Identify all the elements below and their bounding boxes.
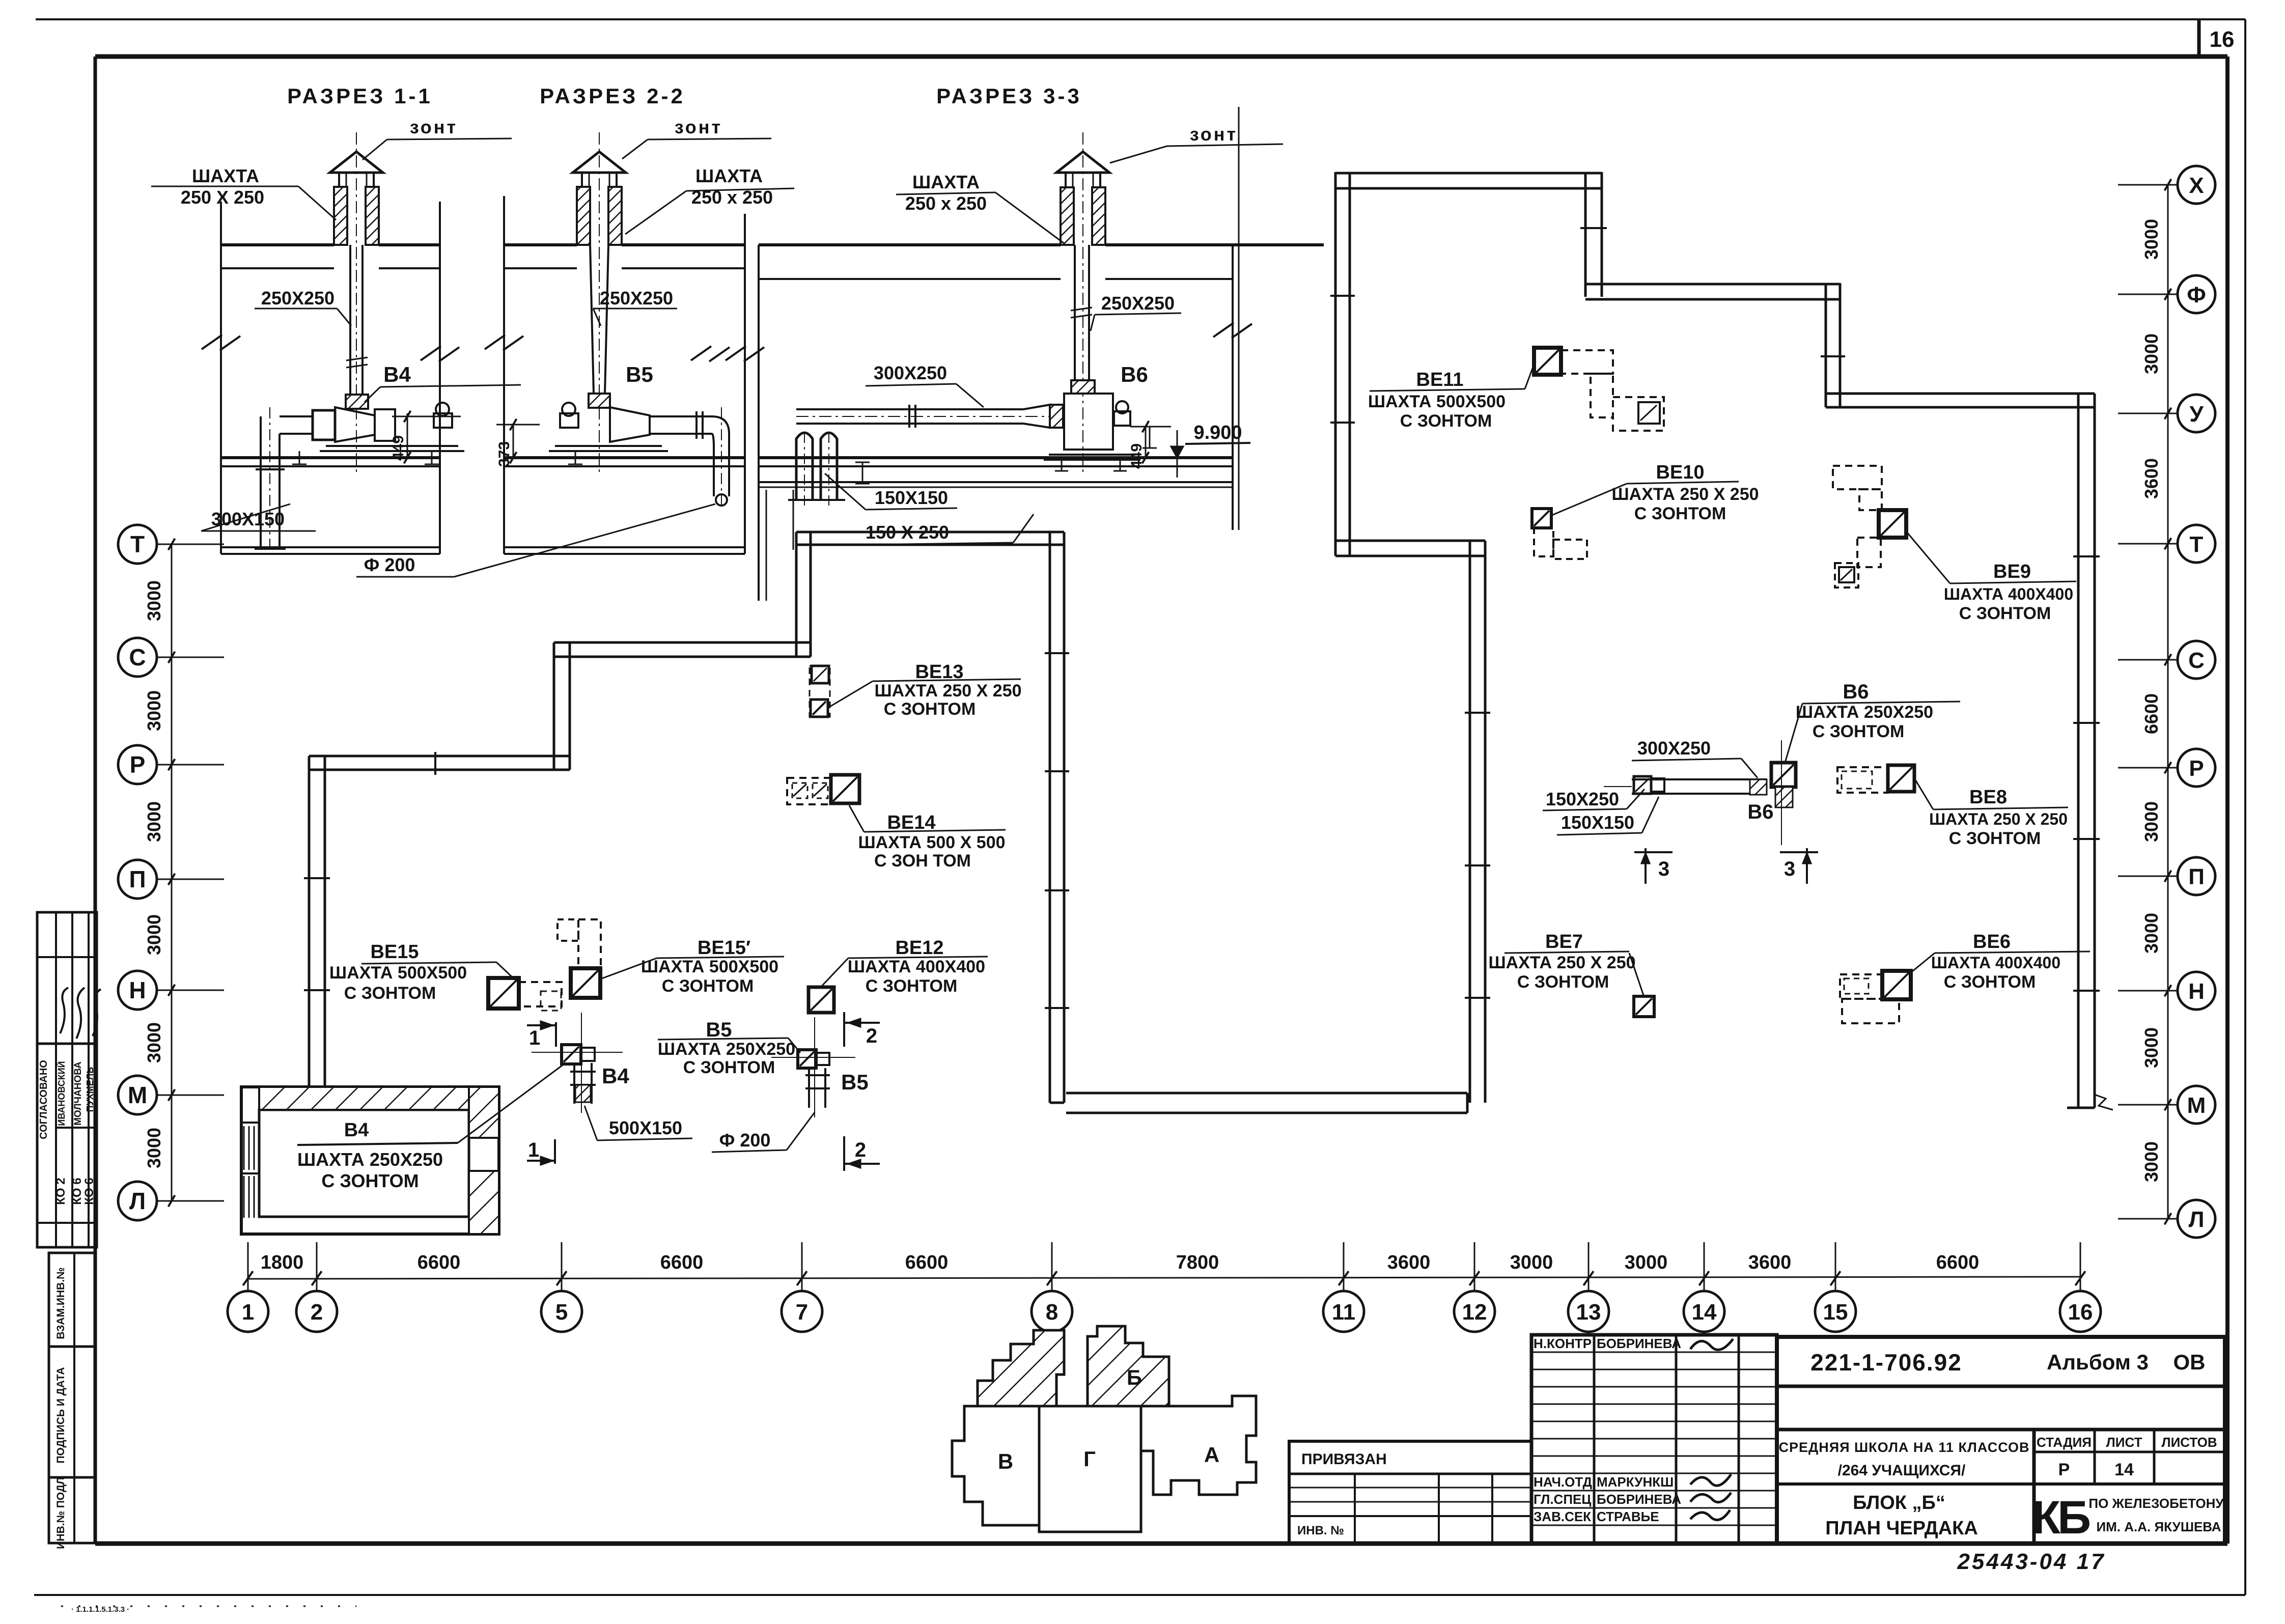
label В5 ШАХТА 250X250 С ЗОНТОМ bbox=[658, 1019, 800, 1077]
svg-text:12: 12 bbox=[1462, 1300, 1487, 1325]
label Ф200 (2-2) bbox=[356, 504, 715, 577]
right room: north step 1 bbox=[1585, 172, 1602, 297]
svg-text:5: 5 bbox=[555, 1300, 568, 1325]
axis circle Х (right) bbox=[2118, 166, 2215, 204]
vent umbrella (зонт) bbox=[1056, 152, 1109, 187]
section cut mark 1 (upper) bbox=[527, 1021, 556, 1049]
svg-text:МОЛЧАНОВА: МОЛЧАНОВА bbox=[73, 1061, 83, 1126]
svg-text:150X150: 150X150 bbox=[1561, 812, 1634, 833]
label 150X250 (plan) bbox=[1543, 789, 1645, 810]
marker ВЕ9 shaft bbox=[1833, 466, 1906, 587]
section 1-1 context boundary walls with break marks bbox=[202, 202, 459, 554]
fan unit (2-2) bbox=[549, 403, 668, 464]
svg-text:ИВАНОВСКИЙ: ИВАНОВСКИЙ bbox=[56, 1061, 67, 1126]
key plan block Б (hatched) part 2 bbox=[1088, 1326, 1169, 1406]
svg-text:ВЕ6: ВЕ6 bbox=[1973, 931, 2011, 953]
label ВЕ15prime bbox=[602, 937, 784, 996]
label 500X150 bbox=[584, 1106, 692, 1140]
left axis spacing labels 3000 bbox=[144, 580, 164, 1168]
svg-text:3000: 3000 bbox=[144, 690, 164, 731]
svg-text:СРЕДНЯЯ ШКОЛА НА 11 КЛАССОВ: СРЕДНЯЯ ШКОЛА НА 11 КЛАССОВ bbox=[1778, 1440, 2029, 1455]
svg-text:ШАХТА 400X400: ШАХТА 400X400 bbox=[1944, 585, 2073, 603]
svg-text:ШАХТА 500X500: ШАХТА 500X500 bbox=[641, 957, 778, 976]
key plan block Г bbox=[1039, 1406, 1141, 1532]
svg-text:ПО ЖЕЛЕЗОБЕТОНУ: ПО ЖЕЛЕЗОБЕТОНУ bbox=[2088, 1496, 2224, 1511]
svg-text:/264 УЧАЩИХСЯ/: /264 УЧАЩИХСЯ/ bbox=[1838, 1462, 1966, 1479]
svg-text:Т: Т bbox=[2190, 532, 2204, 557]
section 2-2 roof slab lines bbox=[504, 245, 745, 268]
svg-text:· 1.1.1.1.5.1.3.3 ·: · 1.1.1.1.5.1.3.3 · bbox=[71, 1605, 129, 1614]
svg-text:РАЗРЕЗ 3-3: РАЗРЕЗ 3-3 bbox=[936, 84, 1082, 108]
svg-text:3000: 3000 bbox=[144, 801, 164, 842]
svg-text:1: 1 bbox=[242, 1300, 254, 1325]
long horizontal duct 300x250 (3-3) bbox=[796, 405, 1056, 428]
svg-text:У: У bbox=[2189, 402, 2204, 427]
svg-text:ВЕ9: ВЕ9 bbox=[1993, 561, 2031, 582]
duct 250x250 drop (3-3) bbox=[1071, 132, 1092, 476]
svg-text:25443-04 17: 25443-04 17 bbox=[1957, 1549, 2105, 1574]
svg-text:БОБРИНЕВА: БОБРИНЕВА bbox=[1597, 1336, 1681, 1351]
marker ВЕ12 shaft bbox=[809, 987, 834, 1013]
section title РАЗРЕЗ 2-2 bbox=[540, 84, 685, 108]
svg-text:В5: В5 bbox=[626, 362, 653, 386]
svg-text:16: 16 bbox=[2210, 27, 2235, 52]
dim 449 (1-1) bbox=[390, 411, 461, 464]
svg-text:3000: 3000 bbox=[2141, 801, 2162, 842]
marker В5 roof fan bbox=[771, 1017, 855, 1117]
key plan block Б (hatched) part 1 bbox=[978, 1330, 1064, 1406]
privyazan box bbox=[1289, 1441, 1531, 1544]
label ВЕ13 bbox=[830, 661, 1022, 719]
svg-text:Ф 200: Ф 200 bbox=[364, 554, 415, 575]
svg-text:7: 7 bbox=[796, 1300, 808, 1325]
section cut mark 2 (upper) bbox=[844, 1012, 880, 1047]
extension lines below section 3-3 bbox=[759, 245, 793, 601]
svg-text:7800: 7800 bbox=[1176, 1252, 1219, 1273]
label ШАХТА 250 x 250 (2-2) bbox=[625, 165, 794, 234]
svg-text:СОГЛАСОВАНО: СОГЛАСОВАНО bbox=[38, 1060, 49, 1139]
svg-text:С ЗОНТОМ: С ЗОНТОМ bbox=[662, 976, 754, 996]
label 250X250 (2-2) bbox=[593, 288, 677, 326]
label ВЕ12 bbox=[821, 937, 988, 996]
svg-text:ШАХТА 500 X 500: ШАХТА 500 X 500 bbox=[858, 833, 1005, 852]
svg-text:ШАХТА 250 X 250: ШАХТА 250 X 250 bbox=[1929, 810, 2068, 828]
svg-text:В6: В6 bbox=[1843, 681, 1869, 703]
svg-text:250 x 250: 250 x 250 bbox=[905, 193, 987, 214]
svg-text:ВЕ8: ВЕ8 bbox=[1969, 787, 2007, 808]
svg-text:РАЗРЕЗ 1-1: РАЗРЕЗ 1-1 bbox=[287, 84, 433, 108]
axis circle 2 (bottom) bbox=[296, 1242, 337, 1332]
svg-text:П: П bbox=[129, 866, 146, 892]
axis circle Н (right) bbox=[2118, 972, 2215, 1010]
svg-text:БОБРИНЕВА: БОБРИНЕВА bbox=[1597, 1492, 1681, 1507]
title text БЛОК Б / ПЛАН ЧЕРДАКА bbox=[1825, 1492, 1978, 1539]
svg-text:Альбом 3: Альбом 3 bbox=[2047, 1350, 2149, 1374]
marker В4 roof fan bbox=[532, 1013, 623, 1113]
bottom dimension line bbox=[248, 1277, 2080, 1279]
elbow duct right ф200 (2-2) bbox=[650, 407, 729, 509]
svg-text:9.900: 9.900 bbox=[1193, 422, 1242, 443]
marker ВЕ8 shaft bbox=[1837, 765, 1914, 793]
svg-text:КО 6: КО 6 bbox=[70, 1178, 84, 1205]
axis circle П (left) bbox=[118, 860, 224, 899]
svg-text:ШАХТА 500X500: ШАХТА 500X500 bbox=[1368, 392, 1506, 411]
shaft 250x250 hatched walls (2-2) bbox=[577, 187, 622, 245]
svg-text:МАРКУНКШ: МАРКУНКШ bbox=[1597, 1474, 1674, 1490]
axis circle Л (right) bbox=[2118, 1200, 2215, 1238]
svg-text:ПУХМЕЛЬ: ПУХМЕЛЬ bbox=[85, 1067, 95, 1112]
svg-text:1: 1 bbox=[529, 1027, 540, 1049]
svg-text:3600: 3600 bbox=[2141, 458, 2162, 499]
label В4 ШАХТА 250X250 С ЗОНТОМ (structure) bbox=[297, 1064, 564, 1191]
label ВЕ6 bbox=[1912, 931, 2090, 992]
svg-text:1800: 1800 bbox=[261, 1252, 304, 1273]
svg-text:221-1-706.92: 221-1-706.92 bbox=[1810, 1349, 1962, 1376]
axis circle М (right) bbox=[2118, 1086, 2215, 1124]
flex connector (1-1) bbox=[346, 395, 368, 409]
label 150X150 (3-3) bbox=[825, 473, 957, 510]
svg-text:ИНВ. №: ИНВ. № bbox=[1297, 1524, 1344, 1537]
В6 duct run on plan bbox=[1604, 740, 1796, 845]
svg-text:ШАХТА 400X400: ШАХТА 400X400 bbox=[1931, 954, 2060, 972]
dim 373 (2-2) bbox=[496, 419, 540, 467]
label ВЕ8 bbox=[1915, 780, 2068, 848]
label ШАХТА 250 x 250 (3-3) bbox=[896, 172, 1064, 243]
svg-text:ГЛ.СПЕЦ: ГЛ.СПЕЦ bbox=[1534, 1492, 1591, 1507]
elbow duct down-left 300x150 (1-1) bbox=[255, 407, 286, 552]
svg-text:зонт: зонт bbox=[410, 117, 458, 137]
left room: step wall horizontal bbox=[554, 642, 811, 657]
section cut mark 1 (lower) bbox=[527, 1139, 555, 1165]
tapered duct drop (2-2) bbox=[590, 132, 608, 473]
section cut mark 3 (right) bbox=[1780, 848, 1818, 884]
svg-text:В4: В4 bbox=[344, 1119, 369, 1141]
left margin stamp table (approvals) bbox=[37, 912, 101, 1247]
axis circle Н (left) bbox=[118, 971, 224, 1010]
svg-text:6600: 6600 bbox=[417, 1252, 461, 1273]
svg-text:300X150: 300X150 bbox=[211, 509, 285, 529]
svg-text:3600: 3600 bbox=[1748, 1252, 1792, 1273]
label зонт (1-1) bbox=[363, 117, 512, 160]
left room: north wall bbox=[796, 532, 1064, 545]
svg-text:3000: 3000 bbox=[144, 1022, 164, 1063]
svg-text:ИМ. А.А. ЯКУШЕВА: ИМ. А.А. ЯКУШЕВА bbox=[2096, 1519, 2221, 1534]
svg-text:В4: В4 bbox=[602, 1064, 629, 1088]
section title РАЗРЕЗ 1-1 bbox=[287, 84, 433, 108]
svg-text:3000: 3000 bbox=[2141, 913, 2162, 954]
svg-text:С ЗОНТОМ: С ЗОНТОМ bbox=[683, 1058, 775, 1077]
left room: step wall vertical 2 bbox=[796, 532, 811, 657]
svg-text:250 X 250: 250 X 250 bbox=[181, 187, 264, 208]
svg-text:ШАХТА 250X250: ШАХТА 250X250 bbox=[1796, 703, 1933, 722]
svg-text:2: 2 bbox=[311, 1300, 323, 1325]
svg-text:449: 449 bbox=[1128, 443, 1145, 469]
svg-text:СТАДИЯ: СТАДИЯ bbox=[2037, 1435, 2092, 1450]
svg-text:С ЗОНТОМ: С ЗОНТОМ bbox=[884, 699, 976, 719]
right room: north wall A bbox=[1335, 173, 1602, 188]
section 2-2 context boundary walls with break marks bbox=[485, 196, 764, 554]
key plan block В bbox=[952, 1406, 1039, 1525]
label 150X150 (plan) bbox=[1557, 797, 1659, 835]
svg-text:Р: Р bbox=[130, 751, 146, 778]
sheet number box 16 bbox=[2199, 19, 2234, 57]
left room: west wall bbox=[309, 756, 325, 1087]
svg-text:С ЗОНТОМ: С ЗОНТОМ bbox=[1813, 722, 1905, 741]
label В6 + ШАХТА 250X250 (plan) bbox=[1785, 681, 1960, 763]
marker ВЕ7 shaft bbox=[1634, 996, 1654, 1017]
svg-text:С ЗОНТОМ: С ЗОНТОМ bbox=[1634, 504, 1726, 523]
dim 449 (3-3) bbox=[1128, 421, 1171, 469]
svg-text:3: 3 bbox=[1784, 858, 1795, 880]
section cut mark 3 (left) bbox=[1634, 848, 1673, 884]
twin stand pipes 150x150 (3-3) bbox=[788, 433, 845, 507]
svg-text:ШАХТА: ШАХТА bbox=[912, 172, 980, 192]
right axis line bbox=[2167, 185, 2169, 1219]
svg-text:ЛИСТОВ: ЛИСТОВ bbox=[2161, 1435, 2217, 1450]
wall joint ticks (right room) bbox=[1330, 228, 2100, 998]
svg-text:ШАХТА 250 X 250: ШАХТА 250 X 250 bbox=[1488, 953, 1635, 972]
svg-text:6600: 6600 bbox=[1936, 1252, 1980, 1273]
label В5 (section) bbox=[626, 362, 653, 386]
wall joint ticks (left room) bbox=[304, 653, 1069, 1008]
svg-text:ВЕ12: ВЕ12 bbox=[895, 937, 943, 959]
fan unit (1-1) bbox=[280, 403, 464, 464]
svg-text:БЛОК „Б“: БЛОК „Б“ bbox=[1853, 1492, 1945, 1514]
svg-text:3000: 3000 bbox=[1625, 1252, 1668, 1273]
fan unit (3-3) bbox=[1044, 394, 1140, 471]
svg-text:В5: В5 bbox=[706, 1019, 732, 1041]
svg-text:ВЗАМ.ИНВ.№: ВЗАМ.ИНВ.№ bbox=[55, 1267, 67, 1339]
handwritten 25443-04 17 bbox=[1957, 1549, 2105, 1574]
svg-text:14: 14 bbox=[1692, 1300, 1717, 1325]
section 1-1 floor slab bbox=[221, 458, 440, 554]
svg-text:ВЕ11: ВЕ11 bbox=[1416, 369, 1464, 390]
svg-text:Н.КОНТР: Н.КОНТР bbox=[1534, 1336, 1592, 1351]
svg-text:В: В bbox=[998, 1449, 1013, 1473]
axis circle С (left) bbox=[118, 638, 224, 677]
section cut mark 2 (lower) bbox=[844, 1136, 880, 1171]
svg-text:373: 373 bbox=[496, 441, 513, 467]
key plan block А bbox=[1141, 1396, 1256, 1495]
axis circle Т (right) bbox=[2118, 525, 2215, 563]
svg-text:СТРАВЬЕ: СТРАВЬЕ bbox=[1597, 1509, 1659, 1524]
right room: west wall upper bbox=[1335, 172, 1350, 556]
axis circle Р (right) bbox=[2118, 749, 2215, 787]
svg-text:Н: Н bbox=[129, 977, 146, 1003]
right room: west wall lower bbox=[1470, 541, 1485, 1103]
svg-text:11: 11 bbox=[1332, 1300, 1356, 1325]
svg-text:В6: В6 bbox=[1747, 801, 1773, 823]
label В4 (section) bbox=[365, 362, 521, 402]
svg-text:3000: 3000 bbox=[2141, 219, 2162, 260]
label 250X250 (1-1) bbox=[255, 288, 351, 326]
right room: north wall C bbox=[1826, 394, 2095, 407]
vent umbrella (зонт) bbox=[573, 152, 626, 187]
label 150x250 (3-3) bbox=[860, 514, 1034, 545]
svg-text:Х: Х bbox=[2189, 173, 2204, 198]
title block signature table bbox=[1531, 1335, 1777, 1544]
svg-text:С: С bbox=[129, 644, 146, 670]
marker ВЕ6 shaft bbox=[1840, 971, 1911, 1023]
marker ВЕ13 shaft bbox=[810, 666, 830, 717]
label 250X250 (3-3) bbox=[1091, 293, 1181, 331]
marker ВЕ14 shaft bbox=[787, 775, 859, 804]
svg-text:С ЗОНТОМ: С ЗОНТОМ bbox=[1959, 604, 2051, 623]
svg-text:500X150: 500X150 bbox=[609, 1117, 682, 1138]
label ВЕ11 bbox=[1368, 361, 1535, 431]
axis circle Т (left) bbox=[118, 525, 224, 564]
axis circle П (right) bbox=[2118, 857, 2215, 895]
svg-text:ОВ: ОВ bbox=[2173, 1350, 2206, 1374]
flex connector (2-2) bbox=[589, 394, 610, 408]
svg-text:С ЗОНТОМ: С ЗОНТОМ bbox=[321, 1170, 419, 1191]
title text school name bbox=[1778, 1440, 2029, 1479]
svg-text:ЛИСТ: ЛИСТ bbox=[2106, 1435, 2142, 1450]
level mark 9.900 (3-3) bbox=[1167, 422, 1250, 478]
axis circle Л (left) bbox=[118, 1182, 224, 1220]
svg-text:ВЕ10: ВЕ10 bbox=[1656, 462, 1704, 483]
section 1-1 roof slab lines bbox=[221, 245, 440, 268]
svg-text:6600: 6600 bbox=[2141, 693, 2162, 734]
right room: north wall B bbox=[1585, 284, 1840, 299]
left room: south wall bbox=[1066, 1093, 1467, 1113]
section title РАЗРЕЗ 3-3 bbox=[936, 84, 1082, 108]
label ВЕ7 bbox=[1488, 931, 1643, 995]
title logo КБ bbox=[2032, 1492, 2224, 1544]
svg-text:М: М bbox=[2187, 1093, 2206, 1118]
svg-text:250X250: 250X250 bbox=[1101, 293, 1175, 314]
svg-text:Л: Л bbox=[2189, 1207, 2205, 1232]
shaft 250x250 hatched walls (1-1) bbox=[334, 187, 379, 245]
marker ВЕ11 shaft bbox=[1534, 348, 1664, 431]
svg-text:В4: В4 bbox=[383, 362, 411, 386]
svg-text:13: 13 bbox=[1576, 1300, 1601, 1325]
svg-text:зонт: зонт bbox=[1190, 124, 1238, 145]
left room: north-west wall bbox=[309, 756, 570, 770]
svg-text:3600: 3600 bbox=[1387, 1252, 1431, 1273]
axis circle У (right) bbox=[2118, 395, 2215, 432]
label ВЕ9 bbox=[1907, 532, 2076, 623]
marker ВЕ10 shaft bbox=[1532, 509, 1587, 559]
axis circle 7 (bottom) bbox=[782, 1242, 822, 1332]
label 300X150 (1-1) bbox=[201, 504, 316, 531]
svg-text:РАЗРЕЗ 2-2: РАЗРЕЗ 2-2 bbox=[540, 84, 685, 108]
svg-text:ИНВ.№ ПОДЛ: ИНВ.№ ПОДЛ bbox=[55, 1477, 67, 1549]
svg-text:Б: Б bbox=[1127, 1365, 1142, 1389]
label Ф200 bbox=[712, 1112, 815, 1152]
svg-text:С ЗОНТОМ: С ЗОНТОМ bbox=[1949, 829, 2041, 848]
svg-text:ШАХТА 400X400: ШАХТА 400X400 bbox=[848, 957, 985, 976]
axis circle М (left) bbox=[118, 1076, 224, 1114]
svg-text:В5: В5 bbox=[841, 1070, 869, 1094]
label ВЕ14 bbox=[849, 805, 1006, 871]
svg-text:С ЗОНТОМ: С ЗОНТОМ bbox=[1400, 411, 1492, 431]
svg-text:3000: 3000 bbox=[144, 1128, 164, 1168]
svg-text:6600: 6600 bbox=[905, 1252, 949, 1273]
svg-text:Т: Т bbox=[130, 531, 145, 557]
left room: east wall bbox=[1050, 532, 1064, 1103]
svg-text:3000: 3000 bbox=[144, 580, 164, 621]
svg-text:КБ: КБ bbox=[2032, 1492, 2089, 1544]
svg-text:250X250: 250X250 bbox=[600, 288, 673, 309]
axis circle 1 (bottom) bbox=[228, 1242, 268, 1332]
axis circle 5 (bottom) bbox=[541, 1242, 582, 1332]
svg-text:3000: 3000 bbox=[144, 914, 164, 955]
axis circle С (right) bbox=[2118, 641, 2215, 679]
flex connector (3-3) bbox=[1071, 380, 1095, 394]
svg-text:Н: Н bbox=[2188, 979, 2205, 1004]
svg-text:Ф 200: Ф 200 bbox=[719, 1130, 771, 1151]
left margin stamp table (inventory) bbox=[49, 1253, 95, 1549]
svg-text:НАЧ.ОТД: НАЧ.ОТД bbox=[1534, 1474, 1593, 1490]
svg-text:3000: 3000 bbox=[2141, 333, 2162, 374]
svg-text:зонт: зонт bbox=[675, 117, 722, 137]
svg-text:КО 2: КО 2 bbox=[54, 1178, 68, 1205]
axis circle 12 (bottom) bbox=[1454, 1242, 1495, 1332]
label 300X250 (plan) bbox=[1632, 738, 1758, 778]
stage/sheet header bbox=[2037, 1435, 2217, 1479]
duct 250x250 drop (1-1) bbox=[346, 132, 368, 473]
right room: east wall bbox=[2067, 394, 2113, 1110]
bottom margin dotted marks bbox=[61, 1605, 356, 1614]
svg-text:Л: Л bbox=[129, 1188, 146, 1214]
label ШАХТА 250 X 250 (1-1) bbox=[151, 165, 336, 220]
svg-text:300X250: 300X250 bbox=[874, 362, 947, 383]
svg-text:Р: Р bbox=[2189, 756, 2204, 781]
marker ВЕ15prime shaft bbox=[558, 919, 601, 998]
pipe supports (3-3) bbox=[855, 427, 1157, 484]
svg-text:ШАХТА 250X250: ШАХТА 250X250 bbox=[297, 1149, 443, 1170]
svg-text:ШАХТА 250 X 250: ШАХТА 250 X 250 bbox=[1611, 485, 1759, 504]
svg-text:ЗАВ.СЕК: ЗАВ.СЕК bbox=[1534, 1509, 1591, 1524]
section 2-2 floor slab bbox=[504, 458, 745, 554]
svg-text:3000: 3000 bbox=[2141, 1141, 2162, 1182]
svg-text:ШАХТА: ШАХТА bbox=[695, 165, 763, 186]
section 3-3 roof slab lines bbox=[759, 245, 1324, 279]
axis circle 11 (bottom) bbox=[1323, 1242, 1364, 1332]
svg-text:С ЗОНТОМ: С ЗОНТОМ bbox=[344, 984, 436, 1003]
shaft 250x250 hatched walls (3-3) bbox=[1061, 187, 1105, 245]
label ВЕ15 bbox=[329, 941, 515, 1003]
svg-text:С ЗОНТОМ: С ЗОНТОМ bbox=[1944, 972, 2036, 992]
axis circle Ф (right) bbox=[2118, 275, 2215, 313]
svg-text:ВЕ7: ВЕ7 bbox=[1545, 931, 1583, 953]
label 300X250 (3-3) bbox=[866, 362, 984, 407]
crosshatch joint (3-3) bbox=[1050, 405, 1063, 428]
title text Альбом 3 ОВ bbox=[2047, 1350, 2205, 1374]
svg-text:ШАХТА: ШАХТА bbox=[192, 165, 259, 186]
left axis line bbox=[171, 544, 173, 1201]
svg-text:С ЗОНТОМ: С ЗОНТОМ bbox=[866, 976, 958, 996]
svg-text:150X150: 150X150 bbox=[875, 487, 948, 508]
title block main box bbox=[1777, 1337, 2225, 1544]
svg-text:ПОДПИСЬ И ДАТА: ПОДПИСЬ И ДАТА bbox=[55, 1367, 67, 1463]
svg-text:С ЗОН ТОМ: С ЗОН ТОМ bbox=[874, 851, 971, 871]
svg-text:С ЗОНТОМ: С ЗОНТОМ bbox=[1517, 972, 1609, 992]
svg-text:Ф: Ф bbox=[2187, 283, 2206, 307]
svg-text:ВЕ15: ВЕ15 bbox=[370, 941, 419, 963]
axis circle 8 (bottom) bbox=[1032, 1242, 1072, 1332]
svg-text:ШАХТА 250X250: ШАХТА 250X250 bbox=[658, 1040, 795, 1059]
section 3-3 floor slab bbox=[759, 458, 1233, 487]
svg-text:3000: 3000 bbox=[2141, 1027, 2162, 1068]
axis circle Р (left) bbox=[118, 745, 224, 784]
right room: north step 2 bbox=[1826, 283, 1840, 407]
svg-text:Р: Р bbox=[2058, 1460, 2070, 1479]
В4 roof shaft structure bbox=[241, 1087, 499, 1234]
svg-text:14: 14 bbox=[2114, 1460, 2134, 1479]
svg-text:А: А bbox=[1204, 1443, 1219, 1467]
